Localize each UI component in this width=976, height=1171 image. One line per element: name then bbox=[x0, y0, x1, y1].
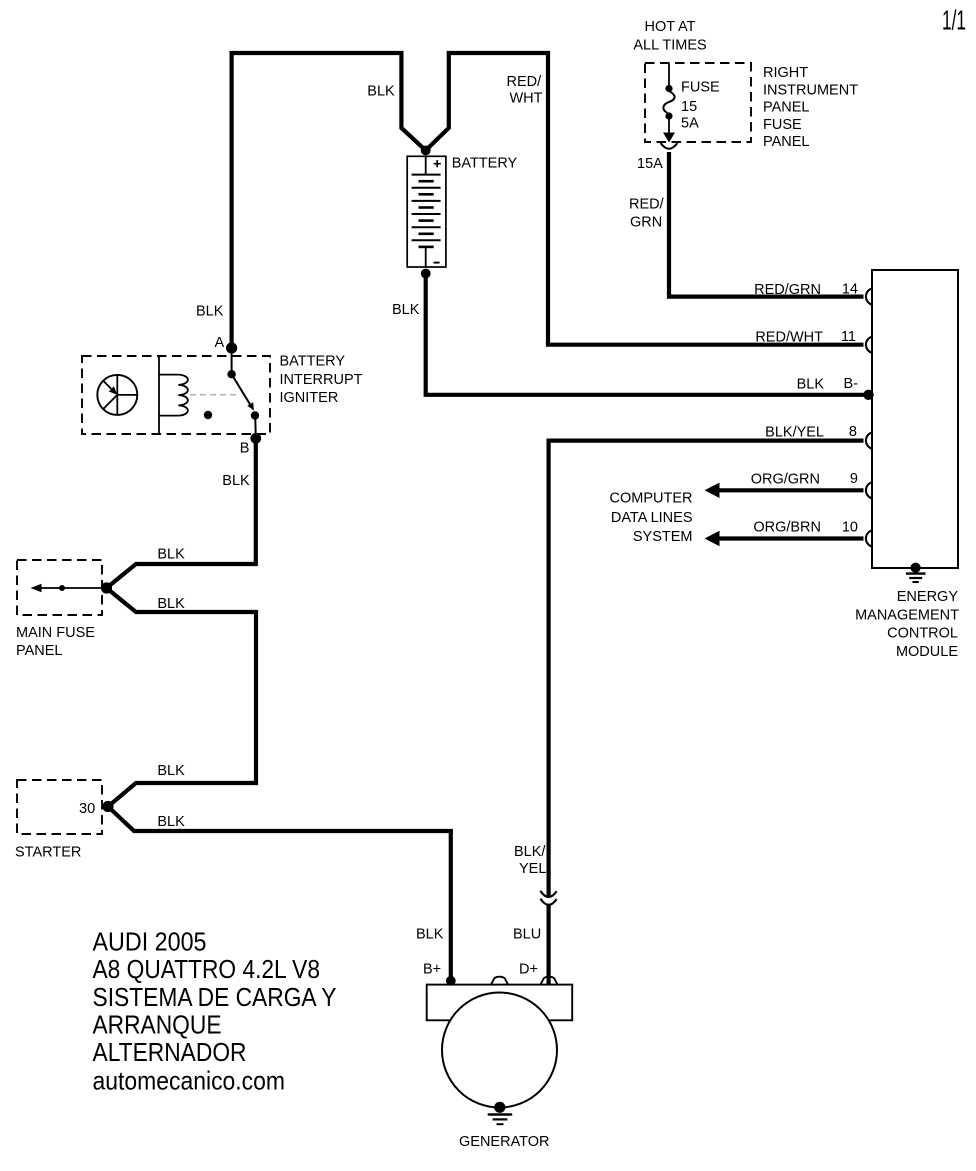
svg-text:automecanico.com: automecanico.com bbox=[93, 1065, 286, 1095]
module pin 11 connector arc bbox=[866, 337, 873, 353]
svg-text:RED/: RED/ bbox=[629, 197, 665, 213]
module pin 8 connector arc bbox=[866, 432, 873, 448]
svg-text:GENERATOR: GENERATOR bbox=[459, 1134, 550, 1150]
svg-text:HOT AT: HOT AT bbox=[644, 19, 695, 35]
battery + terminal node bbox=[421, 146, 431, 156]
svg-text:FUSE: FUSE bbox=[763, 117, 802, 133]
svg-text:IGNITER: IGNITER bbox=[280, 390, 339, 406]
svg-text:15: 15 bbox=[681, 99, 697, 115]
starter dashed box bbox=[17, 780, 102, 834]
svg-text:D+: D+ bbox=[519, 961, 538, 977]
svg-text:BLK: BLK bbox=[222, 473, 250, 489]
svg-text:RED/WHT: RED/WHT bbox=[755, 329, 823, 345]
svg-text:FUSE: FUSE bbox=[681, 80, 720, 96]
svg-text:14: 14 bbox=[842, 281, 858, 297]
svg-text:B-: B- bbox=[844, 376, 859, 392]
arrowhead ORG/GRN data line bbox=[705, 483, 720, 498]
svg-text:BLK: BLK bbox=[157, 814, 185, 830]
switch S1 blade A-B bbox=[227, 350, 259, 439]
ground G1: module case ground bbox=[906, 563, 926, 582]
svg-text:BLK: BLK bbox=[416, 926, 444, 942]
svg-text:ORG/GRN: ORG/GRN bbox=[751, 471, 820, 487]
junction node at main fuse panel bbox=[101, 582, 112, 593]
svg-text:WHT: WHT bbox=[510, 90, 543, 106]
svg-text:PANEL: PANEL bbox=[16, 643, 62, 659]
wire ORG/GRN: module pin 9 to computer data lines bbox=[718, 488, 864, 492]
svg-text:STARTER: STARTER bbox=[15, 845, 81, 861]
svg-text:15A: 15A bbox=[637, 156, 663, 172]
svg-text:SYSTEM: SYSTEM bbox=[633, 529, 693, 545]
svg-text:5A: 5A bbox=[681, 116, 699, 132]
svg-text:ALL TIMES: ALL TIMES bbox=[633, 37, 706, 53]
ground G2: generator case ground bbox=[488, 1102, 513, 1124]
svg-text:MANAGEMENT: MANAGEMENT bbox=[855, 607, 959, 623]
svg-text:BLK: BLK bbox=[367, 84, 395, 100]
svg-text:BLK: BLK bbox=[157, 596, 185, 612]
module pin B- junction dot bbox=[863, 390, 873, 400]
svg-text:DATA LINES: DATA LINES bbox=[611, 510, 693, 526]
wire BLK/YEL: module pin 8 down to inline connector bbox=[549, 441, 864, 897]
svg-text:SISTEMA DE CARGA Y: SISTEMA DE CARGA Y bbox=[93, 982, 337, 1012]
svg-text:RED/GRN: RED/GRN bbox=[754, 282, 821, 298]
svg-text:A8 QUATTRO 4.2L V8: A8 QUATTRO 4.2L V8 bbox=[93, 954, 321, 984]
svg-text:INTERRUPT: INTERRUPT bbox=[280, 372, 363, 388]
generator terminal bump D+ bbox=[541, 977, 558, 985]
svg-text:30: 30 bbox=[79, 801, 95, 817]
module U1: energy management control module box bbox=[872, 270, 958, 568]
svg-text:9: 9 bbox=[850, 471, 858, 487]
svg-text:BLK/: BLK/ bbox=[514, 844, 546, 860]
generator terminal bump (center) bbox=[491, 977, 508, 985]
svg-text:MODULE: MODULE bbox=[896, 644, 958, 660]
feed arrow into main fuse panel bbox=[31, 584, 107, 593]
connector socket below fuse bbox=[661, 143, 678, 149]
battery interrupt igniter dashed box bbox=[82, 356, 270, 434]
battery - terminal node bbox=[421, 269, 431, 279]
svg-text:COMPUTER: COMPUTER bbox=[610, 491, 693, 507]
wire BLK: main fuse panel junction to starter junction bbox=[107, 588, 257, 807]
wire RED/GRN: fuse 15 to module pin 14 bbox=[669, 152, 864, 297]
wire BLK: starter junction to generator B+ bbox=[108, 807, 451, 981]
svg-text:BLK: BLK bbox=[797, 376, 825, 392]
svg-text:RIGHT: RIGHT bbox=[763, 65, 808, 81]
svg-text:GRN: GRN bbox=[630, 214, 662, 230]
switch NC contact dot bbox=[204, 411, 212, 419]
svg-text:PANEL: PANEL bbox=[763, 134, 809, 150]
svg-text:BATTERY: BATTERY bbox=[452, 156, 518, 172]
svg-text:AUDI 2005: AUDI 2005 bbox=[93, 927, 207, 957]
svg-text:ARRANQUE: ARRANQUE bbox=[93, 1010, 222, 1040]
svg-text:BLK: BLK bbox=[196, 303, 224, 319]
generator housing box bbox=[427, 985, 573, 1021]
svg-text:BATTERY: BATTERY bbox=[280, 354, 346, 370]
arrowhead ORG/BRN data line bbox=[705, 531, 720, 546]
wire BLK: battery - to module pin B- bbox=[426, 274, 867, 395]
module pin 14 connector arc bbox=[866, 288, 873, 304]
svg-text:YEL: YEL bbox=[519, 861, 546, 877]
svg-text:MAIN FUSE: MAIN FUSE bbox=[16, 625, 95, 641]
svg-text:B: B bbox=[240, 440, 250, 456]
svg-text:8: 8 bbox=[849, 424, 857, 440]
svg-text:BLK/YEL: BLK/YEL bbox=[765, 425, 824, 441]
svg-text:ALTERNADOR: ALTERNADOR bbox=[93, 1037, 247, 1067]
relay coil K1 bbox=[159, 356, 188, 434]
svg-text:BLK: BLK bbox=[157, 546, 185, 562]
svg-text:RED/: RED/ bbox=[507, 74, 543, 90]
module pin 10 connector arc bbox=[866, 530, 873, 546]
main fuse panel dashed box bbox=[17, 560, 102, 615]
fuse panel dashed box (right instrument panel fuse panel) bbox=[645, 63, 751, 142]
node B+ terminal bbox=[446, 976, 456, 986]
fuse F15 5A bbox=[663, 63, 675, 143]
svg-text:PANEL: PANEL bbox=[763, 100, 809, 116]
wire BLK: battery + up over to node A bbox=[232, 53, 426, 348]
inline connector C1 (BLK/YEL - BLU) bbox=[540, 891, 556, 905]
svg-text:10: 10 bbox=[842, 519, 858, 535]
wire ORG/BRN: module pin 10 to computer data lines bbox=[718, 536, 864, 540]
svg-text:INSTRUMENT: INSTRUMENT bbox=[763, 82, 858, 98]
wire RED/WHT: battery + to module pin 11 bbox=[426, 53, 864, 345]
svg-text:A: A bbox=[215, 335, 225, 351]
svg-text:BLU: BLU bbox=[513, 926, 541, 942]
module pin 9 connector arc bbox=[866, 482, 873, 498]
svg-text:ORG/BRN: ORG/BRN bbox=[753, 520, 821, 536]
node A bbox=[226, 342, 237, 353]
svg-text:B+: B+ bbox=[423, 961, 441, 977]
relay actuation dashed link bbox=[190, 394, 238, 396]
svg-text:11: 11 bbox=[841, 329, 856, 345]
wire BLK: node B down to main fuse panel junction bbox=[107, 439, 256, 589]
svg-text:1/1: 1/1 bbox=[942, 5, 966, 36]
wire BLU: inline connector to generator D+ bbox=[546, 904, 550, 984]
svg-text:BLK: BLK bbox=[157, 763, 185, 779]
battery B1 bbox=[407, 156, 446, 267]
generator G: rotor circle bbox=[442, 993, 557, 1108]
junction node at starter terminal 30 bbox=[102, 801, 113, 812]
svg-text:ENERGY: ENERGY bbox=[897, 589, 959, 605]
node B bbox=[250, 433, 261, 444]
svg-text:CONTROL: CONTROL bbox=[887, 626, 958, 642]
svg-text:BLK: BLK bbox=[392, 302, 420, 318]
igniter (squib) symbol bbox=[97, 375, 137, 415]
